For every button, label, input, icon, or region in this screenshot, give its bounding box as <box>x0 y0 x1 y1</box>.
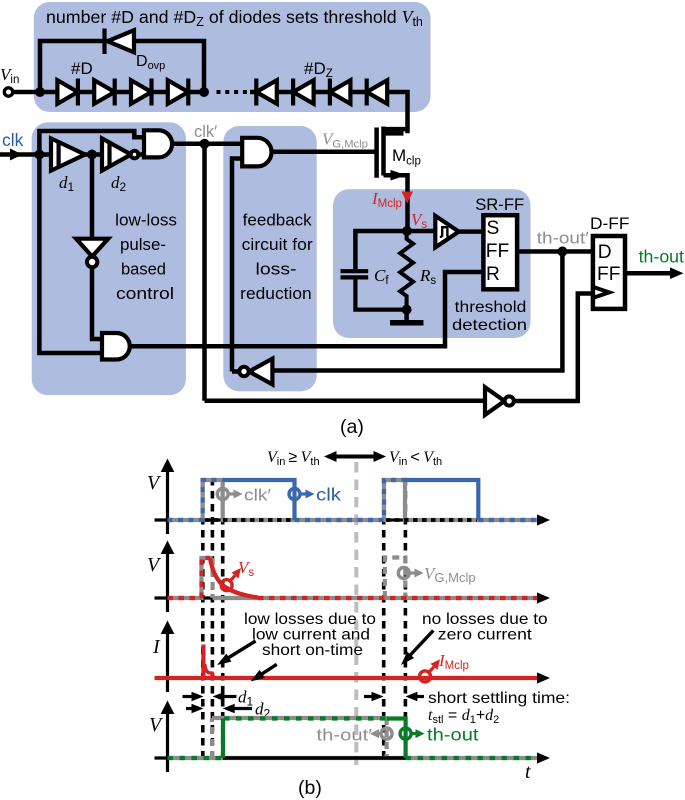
svg-text:circuit for: circuit for <box>242 236 314 254</box>
legend clk' <box>217 489 228 500</box>
node after d1 <box>87 150 97 160</box>
clk blue solid <box>223 480 295 520</box>
svg-text:low losses due to: low losses due to <box>244 611 376 628</box>
diode Dovp <box>108 30 135 52</box>
diode DZ1 <box>256 80 277 104</box>
node clk junction <box>34 150 44 160</box>
node Vs junction <box>402 226 412 236</box>
ROW2 axes <box>155 552 541 612</box>
wire Dovp branch <box>40 41 204 92</box>
box feedback circuit <box>223 126 316 391</box>
inverter U7 down <box>76 239 108 267</box>
svg-text:VG,Mclp: VG,Mclp <box>424 564 476 585</box>
dimension d2 <box>186 707 192 710</box>
svg-text:reduction: reduction <box>240 285 312 303</box>
svg-text:Mclp: Mclp <box>392 146 421 168</box>
diode DZ2 <box>293 80 314 104</box>
CLK ROW <box>0 131 242 401</box>
VG,Mclp gray pulse1 <box>168 558 213 598</box>
wire U5 to DFF clock <box>514 294 593 402</box>
wire SRFF output to DFF <box>517 249 593 254</box>
VG,Mclp gray pulse2 dashed <box>385 558 406 599</box>
legend Vs <box>221 580 232 591</box>
box threshold detection <box>333 189 531 338</box>
svg-text:V: V <box>147 554 162 576</box>
wire clk' to AND3 <box>205 142 243 147</box>
svg-text:tstl = d1+d2: tstl = d1+d2 <box>428 707 499 726</box>
svg-text:pulse-: pulse- <box>120 235 166 254</box>
SR-FF box <box>483 215 517 289</box>
svg-text:based: based <box>121 260 166 279</box>
svg-text:t: t <box>525 761 531 783</box>
marker dashed verticals <box>203 478 406 757</box>
node B junction between chains <box>199 87 209 97</box>
svg-text:Vin<Vth: Vin<Vth <box>389 449 442 468</box>
ROW3 axes <box>155 632 541 692</box>
svg-text:feedback: feedback <box>243 212 313 230</box>
svg-text:VG,Mclp: VG,Mclp <box>322 130 368 151</box>
svg-text:th-out: th-out <box>427 725 479 745</box>
current arrow IMclp red <box>402 192 414 204</box>
legend VG,Mclp <box>398 568 409 579</box>
delay cell d2 with bubble <box>102 138 138 170</box>
svg-text:d1: d1 <box>238 688 254 709</box>
terminal Vin <box>4 88 12 96</box>
wire bottom run clk' to inverter U5 <box>205 399 486 404</box>
AND gate U2 bottom <box>102 333 130 360</box>
legend clk <box>289 489 300 500</box>
wire diode chain #D <box>40 90 204 95</box>
box top: diode threshold region <box>34 2 431 112</box>
svg-text:SR-FF: SR-FF <box>475 195 524 214</box>
svg-text:D-FF: D-FF <box>590 214 630 233</box>
svg-text:th-out: th-out <box>639 247 685 267</box>
node ground junction <box>402 305 412 315</box>
comparator U6 with pulse symbol <box>435 216 459 248</box>
svg-text:clk: clk <box>2 130 24 150</box>
svg-text:short on-time: short on-time <box>262 642 363 659</box>
svg-text:clk: clk <box>316 485 341 505</box>
wire AND2 output to R input <box>130 272 484 346</box>
svg-text:IMclp: IMclp <box>438 651 469 672</box>
svg-text:control: control <box>116 284 174 303</box>
capacitor Cf <box>341 271 407 309</box>
ROW1 axes <box>155 470 541 534</box>
svg-text:S: S <box>487 218 500 239</box>
wire clk input <box>0 152 51 157</box>
wire d2 bubble to AND1 <box>138 152 144 157</box>
svg-text:low-loss: low-loss <box>115 211 177 230</box>
wire d1 junction down to inverter <box>90 155 95 239</box>
wire clk top feed to AND1 <box>39 131 144 155</box>
wire AND3 output to gate of Mclp <box>272 150 377 155</box>
box low-loss control <box>32 122 186 395</box>
D-FF clock wedge <box>593 287 609 298</box>
ground <box>404 310 409 322</box>
D-FF box <box>593 236 625 309</box>
diode D1 of #D <box>57 80 78 104</box>
diode DZ3 <box>330 80 351 104</box>
AND gate U3 feedback <box>242 138 271 167</box>
Vs red dashes on rise and top <box>202 558 211 598</box>
Vs red baseline dashes <box>168 596 538 600</box>
wire dotted segment <box>217 90 251 94</box>
clk' gray <box>168 480 538 520</box>
wire comparator to S input <box>459 229 484 234</box>
svg-text:R: R <box>486 264 500 285</box>
wire d1 to d2 <box>85 152 102 157</box>
th-out green dashes <box>168 719 538 759</box>
wire diode chain #DZ <box>250 92 408 133</box>
svg-text:zero current: zero current <box>438 627 533 644</box>
AND gate U1 top <box>144 130 172 157</box>
svg-text:FF: FF <box>486 241 509 262</box>
svg-text:loss-: loss- <box>256 261 297 279</box>
divider dashed light gray <box>354 462 358 765</box>
axis black solid under high <box>223 756 406 760</box>
wire clk' down leg <box>202 144 207 401</box>
wire Vin to node A <box>13 90 40 95</box>
inverter U4 feedback (points left) <box>239 359 272 385</box>
svg-text:(a): (a) <box>340 416 364 438</box>
svg-text:Vin≥Vth: Vin≥Vth <box>267 449 320 468</box>
wire clk junction down left leg <box>39 155 102 354</box>
legend IMclp <box>420 671 431 682</box>
transistor Mclp <box>377 127 408 232</box>
svg-text:clk′: clk′ <box>244 486 271 505</box>
wire inverter to AND2 top input <box>92 268 102 340</box>
diode DZ4 <box>367 80 388 104</box>
svg-text:FF: FF <box>597 264 620 285</box>
wire Vs to comparator <box>407 229 435 234</box>
clk input arrowhead <box>10 149 23 161</box>
ROW4 axes <box>155 712 541 772</box>
svg-text:V: V <box>147 472 162 494</box>
wire U4 bubble to AND3 leg <box>232 369 239 374</box>
wire th-out output <box>625 271 671 276</box>
svg-text:th-out′: th-out′ <box>317 726 373 745</box>
svg-text:Vin: Vin <box>0 65 19 86</box>
svg-text:V: V <box>149 714 164 736</box>
node A junction at Vin chain start <box>35 87 45 97</box>
svg-text:D: D <box>598 242 612 263</box>
Vs red decay solid <box>210 558 258 598</box>
ROW3 waveform IMclp red with spike <box>155 676 538 680</box>
delay cell d1 <box>51 138 85 170</box>
svg-text:threshold: threshold <box>455 299 527 316</box>
svg-text:Vs: Vs <box>238 558 254 579</box>
svg-text:no losses due to: no losses due to <box>422 611 548 628</box>
th-out' gray <box>168 756 538 760</box>
diode D4 of #D <box>168 80 189 104</box>
wire th-out' down to feedback inverter <box>272 252 562 371</box>
svg-text:#D: #D <box>71 59 93 78</box>
wire Vs to Cf branch <box>355 231 407 269</box>
wire AND3 bottom input L <box>232 159 242 372</box>
dimension d1 <box>183 695 193 698</box>
svg-text:clk′: clk′ <box>194 123 217 141</box>
clk blue dashes over gray <box>168 480 538 520</box>
Mclp source arrow <box>391 170 407 181</box>
svg-text:number #D and #DZ of diodes se: number #D and #DZ of diodes sets thresho… <box>46 7 423 29</box>
CIRCUIT <box>4 41 407 133</box>
svg-text:th-out′: th-out′ <box>537 230 589 248</box>
resistor Rs zigzag <box>400 231 413 310</box>
svg-text:low current and: low current and <box>252 627 370 644</box>
diode D2 of #D <box>94 80 115 104</box>
svg-text:short settling time:: short settling time: <box>428 690 570 707</box>
svg-text:detection: detection <box>452 317 527 334</box>
axis black dashes under pulses <box>205 518 295 522</box>
th-out green solid <box>223 719 406 759</box>
dimension settling <box>364 695 372 698</box>
inverter U5 bottom <box>485 387 514 415</box>
wire AND1 output to clk' <box>172 142 205 147</box>
node clk' junction <box>200 139 210 149</box>
svg-text:I: I <box>152 636 161 658</box>
node th-out' junction <box>557 247 567 257</box>
svg-text:(b): (b) <box>298 777 322 799</box>
legend th-out <box>400 728 411 739</box>
legend th-out' <box>381 728 392 739</box>
diode D3 of #D <box>131 80 152 104</box>
